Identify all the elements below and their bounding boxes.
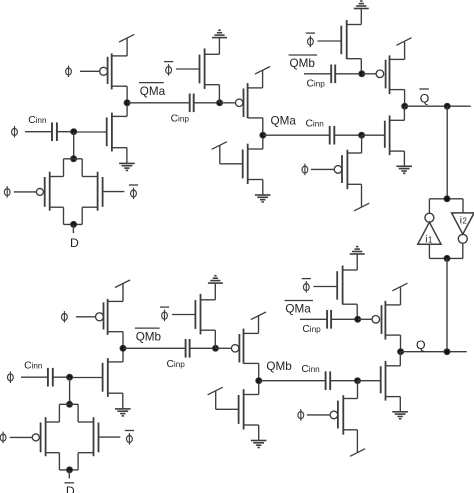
label Cinp (output stage)	[307, 79, 326, 90]
pmos P3 (output driver) (bottom half)	[358, 301, 401, 340]
svg-text:inn: inn	[32, 362, 43, 371]
power-clock slash (P4 drain)	[354, 184, 369, 211]
svg-text:QMb: QMb	[290, 57, 316, 70]
wire QMb_bar (bottom half)	[300, 318, 327, 320]
junction node (N1 gate / tg)	[71, 129, 77, 159]
capacitor Cinn (stage 1) with leads	[25, 122, 74, 141]
ground (below N1) (bottom half)	[115, 409, 131, 416]
tg pmos (left of transmission gate)	[14, 172, 50, 211]
label phi (tg pmos gate) (bottom half)	[0, 432, 6, 444]
ground (below N3) (bottom half)	[251, 441, 267, 448]
nmos N4 (phi_bar precharge, output stage)	[318, 20, 362, 59]
svg-text:QMb: QMb	[136, 331, 162, 344]
ground (below N3)	[255, 195, 271, 202]
label Cinp (output stage) (bottom half)	[302, 324, 321, 335]
supply rake (above N2)	[212, 30, 227, 54]
inverter I1 (pointing up)	[418, 199, 441, 259]
pmos P1 (clocked pull-up, stage 1) (bottom half)	[96, 299, 124, 335]
label phi (Cinn input, stage 1) (bottom half)	[7, 371, 13, 383]
transmission-gate top rail (bottom half)	[46, 401, 94, 422]
nmos N1 (stage-1 driver)	[74, 113, 127, 152]
label phi_bar (tg nmos gate) (bottom half)	[125, 431, 134, 445]
power-clock slash (P1 source)	[119, 34, 134, 56]
nmos N2 (phi_bar precharge, stage 2) (bottom half)	[172, 294, 215, 335]
power-clock slash (P2 source) (bottom half)	[251, 312, 266, 333]
tg nmos (right of transmission gate) (bottom half)	[94, 417, 121, 456]
inverter latch top rail	[429, 196, 463, 202]
label phi (gate of pmos P1) (bottom half)	[62, 311, 96, 323]
svg-text:1: 1	[428, 236, 433, 245]
label phi (Cinn input, stage 1)	[12, 126, 18, 138]
power-clock slash (P3 source)	[396, 38, 411, 60]
wire N5 source to ground	[403, 151, 405, 166]
label i2	[460, 215, 468, 226]
capacitor Cinn (output stage) with lead	[330, 126, 362, 145]
power-clock slash (P2 source)	[255, 67, 270, 88]
wire N1 source to ground	[126, 148, 128, 164]
supply rake (above N4)	[354, 1, 369, 24]
nmos N3 (pull-down on QMa) (bottom half)	[239, 389, 259, 429]
wire and node Q (output) (bottom half)	[398, 335, 467, 355]
label QMb_bar (bottom half)	[135, 328, 162, 343]
capacitor Cinp (output stage) with lead	[331, 65, 362, 84]
node n3 (P3 gate)	[359, 71, 365, 77]
inverter I2 (pointing down)	[452, 199, 474, 259]
label QMa	[271, 115, 297, 128]
pmos P2 (stage-2 driver) (bottom half)	[216, 329, 259, 364]
label phi_bar (N4 gate)	[306, 33, 315, 47]
wire N3 source to ground	[262, 180, 264, 196]
supply rake (above N2) (bottom half)	[208, 276, 223, 300]
node n2 (P2 gate) (bottom half)	[213, 345, 219, 351]
nmos N5 (output pull-down) (bottom half)	[358, 352, 401, 401]
tg pmos (left of transmission gate) (bottom half)	[10, 417, 46, 456]
wire N2 to node n2	[218, 85, 220, 103]
svg-text:D: D	[70, 236, 79, 250]
svg-text:inn: inn	[36, 116, 47, 125]
node n4 (N5 gate)	[359, 132, 365, 153]
wire and node QMa_bar (stage-1 output) (bottom half)	[120, 332, 186, 362]
label Cinn (stage 1)	[28, 115, 47, 126]
label phi (tg pmos gate)	[4, 186, 10, 198]
capacitor Cinp (stage 2) with lead (bottom half)	[186, 339, 216, 358]
label phi (P4 gate)	[302, 164, 334, 176]
svg-text:QMa: QMa	[271, 115, 297, 128]
node n2 (P2 gate)	[217, 100, 223, 106]
pmos P2 (stage-2 driver)	[220, 83, 263, 118]
label QMb (bottom half)	[266, 360, 292, 373]
label phi_bar (N2 gate) (bottom half)	[160, 307, 169, 321]
ground (below N1)	[119, 163, 135, 170]
node D_bar (inverted data input) (bottom half)	[64, 470, 75, 493]
transmission-gate top rail	[50, 156, 98, 177]
ground (below N5) (bottom half)	[392, 412, 408, 419]
label Cinp (stage 2) (bottom half)	[167, 359, 186, 370]
svg-text:D: D	[66, 484, 75, 493]
transmission-gate bottom rail	[50, 207, 98, 227]
nmos N4 (phi_bar precharge, output stage) (bottom half)	[313, 266, 357, 305]
label phi_bar (tg nmos gate)	[129, 185, 138, 199]
svg-text:inp: inp	[310, 325, 321, 334]
transmission-gate bottom rail (bottom half)	[46, 453, 94, 473]
nmos N3 (pull-down on QMa)	[243, 144, 263, 184]
wire N5 source to ground (bottom half)	[399, 397, 401, 412]
nmos N1 (stage-1 driver) (bottom half)	[70, 358, 123, 397]
svg-text:QMa: QMa	[140, 85, 166, 98]
nmos N5 (output pull-down)	[362, 106, 405, 155]
label phi_bar (N4 gate) (bottom half)	[302, 279, 311, 293]
label Qbar	[419, 89, 429, 106]
pmos P3 (output driver)	[362, 55, 405, 94]
nmos N2 (phi_bar precharge, stage 2)	[176, 48, 219, 89]
label QMa_bar	[139, 83, 166, 98]
label Cinp (stage 2)	[171, 113, 190, 124]
wire N3 source to ground (bottom half)	[258, 425, 260, 441]
pmos P4 (clocked keeper, output stage) (bottom half)	[330, 395, 357, 435]
power-clock slash (P3 source) (bottom half)	[392, 283, 407, 305]
supply rake (above N4) (bottom half)	[350, 247, 365, 270]
label Q (bottom half)	[416, 338, 426, 352]
svg-text:inn: inn	[309, 365, 320, 374]
capacitor Cinn (output stage) with lead (bottom half)	[326, 371, 358, 390]
tg nmos (right of transmission gate)	[98, 172, 125, 211]
capacitor Cinp (output stage) with lead (bottom half)	[327, 310, 358, 329]
wire N4 to node n3 (bottom half)	[356, 304, 358, 319]
wire Qbar to inverter latch	[446, 106, 448, 199]
inverter latch bottom rail	[429, 255, 463, 261]
ground (below N5)	[396, 166, 412, 173]
node n4 (N5 gate) (bottom half)	[355, 378, 361, 399]
wire and node Qbar (output)	[402, 90, 471, 110]
label i1	[425, 235, 433, 246]
label QMa_bar (output-stage input) (bottom half)	[285, 301, 314, 316]
junction node (N1 gate / tg) (bottom half)	[67, 374, 73, 404]
pmos P4 (clocked keeper, output stage)	[334, 150, 361, 190]
capacitor Cinn (stage 1) with leads (bottom half)	[21, 368, 70, 387]
node D (data input)	[70, 224, 79, 250]
svg-text:inp: inp	[178, 114, 189, 123]
svg-text:2: 2	[462, 216, 467, 225]
capacitor Cinp (stage 2) with lead	[190, 94, 220, 113]
svg-text:Q: Q	[416, 338, 426, 352]
label phi_bar (N2 gate)	[164, 62, 173, 76]
power-clock slash (P4 drain) (bottom half)	[350, 430, 365, 457]
node n3 (P3 gate) (bottom half)	[355, 316, 361, 322]
wire N1 source to ground (bottom half)	[122, 393, 124, 409]
svg-text:QMb: QMb	[266, 360, 292, 373]
svg-text:inn: inn	[313, 120, 324, 129]
svg-text:inp: inp	[174, 360, 185, 369]
label Cinn (output stage)	[306, 119, 325, 130]
wire N4 to node n3	[360, 59, 362, 74]
svg-text:QMa: QMa	[285, 303, 311, 316]
wire and node QMa (stage-2 output) (bottom half)	[256, 363, 326, 394]
wire N2 to node n2 (bottom half)	[214, 330, 216, 348]
wire and node QMa_bar (stage-1 output)	[124, 86, 190, 116]
power-clock slash (N3 gate)	[212, 142, 243, 164]
wire inverter latch to Q	[446, 258, 448, 351]
power-clock slash (P1 source) (bottom half)	[115, 280, 130, 302]
svg-text:Q: Q	[420, 92, 430, 106]
label Cinn (stage 1) (bottom half)	[24, 361, 43, 372]
wire QMb_bar	[304, 73, 331, 75]
wire and node QMa (stage-2 output)	[260, 118, 330, 149]
label QMb_bar (output-stage input)	[289, 55, 318, 70]
pmos P1 (clocked pull-up, stage 1)	[100, 53, 128, 89]
label Cinn (output stage) (bottom half)	[301, 364, 320, 375]
power-clock slash (N3 gate) (bottom half)	[208, 387, 239, 409]
svg-text:inp: inp	[314, 80, 325, 89]
label phi (P4 gate) (bottom half)	[298, 409, 330, 421]
label phi (gate of pmos P1)	[66, 66, 100, 78]
